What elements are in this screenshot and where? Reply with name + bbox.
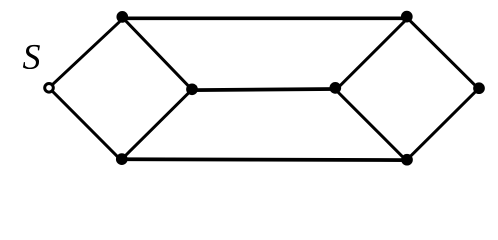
node top-left (116, 11, 128, 23)
wire S to top-left node (49, 19, 122, 88)
wire bottom-left node to bottom-right node (bottom horizontal) (122, 157, 407, 162)
node middle-right (329, 82, 341, 94)
wire bottom-left node to middle-left node (122, 90, 192, 160)
wire top-left node to top-right node (top horizontal) (122, 16, 407, 20)
wire middle-right node to bottom-right node (334, 88, 406, 160)
wire top-right node to right node (407, 18, 479, 90)
node middle-left (186, 83, 198, 95)
node S (open circle start vertex) (45, 84, 54, 93)
node bottom-left (116, 153, 128, 165)
node bottom-right (401, 154, 413, 166)
wire middle-right node to top-right node (338, 17, 410, 88)
label S (23, 45, 40, 69)
node top-right (401, 11, 413, 23)
wire S to bottom-left node (49, 88, 122, 161)
wire middle-left node to middle-right node (middle horizontal) (192, 89, 335, 90)
wire bottom-right node to right node (407, 88, 479, 160)
node right (473, 82, 485, 94)
wire top-left node to middle-left node (122, 17, 192, 89)
